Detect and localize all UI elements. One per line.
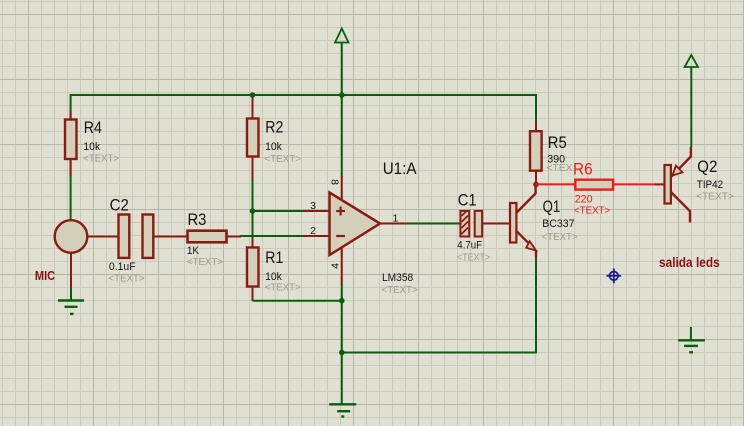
- svg-text:<TEXT>: <TEXT>: [382, 284, 418, 296]
- svg-text:<TEXT>: <TEXT>: [187, 256, 223, 268]
- svg-text:Q2: Q2: [697, 158, 717, 176]
- resistor R4: [65, 111, 119, 176]
- svg-text:BC337: BC337: [542, 218, 574, 230]
- resistor R3: [187, 211, 241, 268]
- wire bottom rail R1: [252, 300, 342, 302]
- power arrow center: [335, 29, 349, 96]
- svg-text:<TEXT>: <TEXT>: [457, 252, 490, 264]
- op-amp U1: [304, 160, 418, 296]
- junction node divider to pin3: [250, 208, 256, 214]
- junction node top rail power: [339, 92, 345, 98]
- power arrow right: [685, 55, 698, 147]
- junction node R5 Q1 R6: [533, 182, 539, 188]
- svg-text:<TEXT>: <TEXT>: [109, 272, 145, 284]
- origin marker: [607, 269, 622, 284]
- wire MIC to ground: [70, 287, 72, 301]
- svg-text:R1: R1: [265, 249, 283, 267]
- svg-text:<TEXT>: <TEXT>: [264, 153, 301, 165]
- svg-text:<TEXT>: <TEXT>: [696, 190, 734, 202]
- svg-text:R2: R2: [265, 119, 283, 137]
- svg-text:R3: R3: [188, 211, 207, 229]
- svg-text:LM358: LM358: [382, 272, 413, 284]
- microphone MIC: [35, 220, 119, 288]
- wire top rail: [71, 94, 536, 96]
- capacitor C2: [109, 196, 188, 284]
- wire divider to op-amp pin 3: [253, 210, 305, 212]
- svg-text:C2: C2: [110, 196, 129, 214]
- svg-text:C1: C1: [458, 191, 477, 209]
- wire red net R6 right: [613, 183, 656, 185]
- ground under MIC: [58, 301, 84, 314]
- svg-text:<TEXT>: <TEXT>: [542, 231, 578, 243]
- svg-text:R4: R4: [84, 119, 102, 137]
- wire R3 to op-amp pin 2: [240, 235, 305, 237]
- svg-text:R6: R6: [573, 161, 593, 179]
- wire power rail to op-amp pin 8: [341, 95, 343, 177]
- wire op-amp pin4 to bottom: [341, 283, 343, 404]
- wire R2 R1 column: [252, 95, 254, 301]
- wire red net R6 left: [536, 183, 576, 185]
- svg-text:<TEX: <TEX: [547, 162, 573, 174]
- svg-text:1: 1: [393, 213, 399, 225]
- svg-text:10k: 10k: [83, 141, 100, 153]
- junction node bottom rail: [339, 298, 345, 304]
- resistor R5: [530, 121, 573, 185]
- svg-text:<TEXT>: <TEXT>: [574, 204, 610, 216]
- resistor R2: [247, 96, 301, 179]
- svg-text:R5: R5: [548, 134, 567, 152]
- resistor R6: [573, 161, 613, 217]
- svg-text:MIC: MIC: [35, 268, 56, 283]
- transistor Q2: [655, 147, 734, 223]
- wire op-amp output to C1: [408, 223, 461, 225]
- junction node top rail R2: [250, 92, 256, 98]
- svg-text:salida leds: salida leds: [659, 255, 720, 270]
- wire R5 column: [535, 94, 537, 123]
- ground center: [329, 404, 356, 416]
- svg-text:<TEXT>: <TEXT>: [83, 153, 119, 165]
- svg-text:8: 8: [328, 179, 340, 185]
- svg-text:2: 2: [310, 225, 316, 237]
- svg-text:0.1uF: 0.1uF: [109, 261, 136, 273]
- junction node lower rail: [339, 350, 345, 356]
- svg-text:4: 4: [330, 263, 342, 269]
- svg-text:4.7uF: 4.7uF: [457, 239, 482, 251]
- ground under Q2: [678, 327, 705, 352]
- resistor R1: [247, 238, 301, 301]
- svg-text:U1:A: U1:A: [383, 160, 417, 178]
- wire lower rail to Q1 emitter: [342, 256, 536, 353]
- svg-text:<TEXT>: <TEXT>: [265, 281, 301, 293]
- wire R4 column: [70, 94, 72, 220]
- capacitor C1: [457, 191, 510, 263]
- svg-text:3: 3: [310, 200, 316, 212]
- transistor Q1: [510, 184, 578, 258]
- svg-text:10k: 10k: [265, 141, 282, 153]
- svg-text:Q1: Q1: [543, 198, 561, 216]
